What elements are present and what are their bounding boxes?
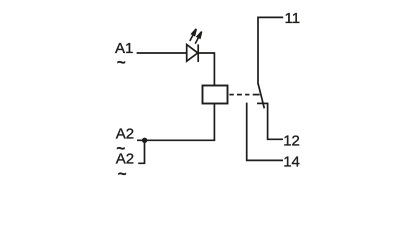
wire A1 to LED anode	[137, 52, 187, 54]
terminal label A2-tilde	[116, 140, 134, 167]
AC symbol under A2-tilde	[118, 166, 127, 183]
wire A2 to coil	[137, 139, 215, 141]
terminal label A1	[115, 40, 133, 57]
contact arm from 11	[258, 84, 264, 108]
svg-text:~: ~	[116, 140, 125, 157]
wire A2-tilde stub to junction	[138, 141, 144, 164]
terminal label 14	[283, 153, 300, 170]
LED D1	[187, 29, 202, 62]
fixed contact 14	[247, 103, 283, 161]
terminal label A2	[116, 125, 134, 142]
wire coil bottom lead	[213, 104, 215, 141]
svg-text:14: 14	[283, 153, 300, 170]
svg-text:11: 11	[285, 10, 301, 27]
relay coil K1	[203, 86, 228, 104]
wire corner down to coil top	[213, 52, 215, 85]
svg-text:12: 12	[283, 132, 300, 149]
terminal label 12	[283, 132, 300, 149]
mechanical link dashed	[229, 94, 259, 96]
svg-text:~: ~	[117, 55, 126, 72]
terminal label 11	[285, 10, 301, 27]
node A2 junction	[142, 138, 147, 143]
wire LED cathode to corner	[198, 52, 214, 54]
svg-text:~: ~	[118, 166, 127, 183]
fixed contact 12	[257, 103, 283, 139]
wire terminal 11	[258, 17, 283, 84]
AC symbol under A1	[117, 55, 126, 72]
